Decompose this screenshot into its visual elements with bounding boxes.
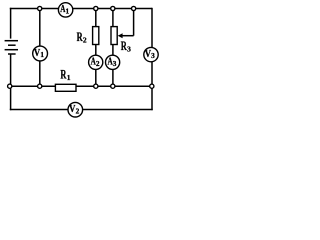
svg-text:2: 2 — [83, 36, 87, 45]
wire V1 branch vertical — [39, 9, 41, 87]
resistor R2 — [93, 27, 99, 45]
node top junction to R2 — [94, 6, 98, 10]
resistor R1 label — [60, 67, 70, 83]
wire R3 wiper arm — [118, 9, 134, 39]
wire R3 branch vertical — [112, 9, 114, 87]
wire middle horizontal row — [10, 85, 152, 87]
resistor R1 — [55, 84, 76, 91]
svg-text:1: 1 — [40, 50, 44, 59]
wire R2 branch vertical — [95, 9, 97, 87]
node top junction to V1 — [38, 6, 42, 10]
node row junction left — [8, 84, 12, 88]
voltmeter V2 — [68, 102, 83, 117]
voltmeter V1 — [33, 46, 48, 61]
svg-text:1: 1 — [66, 7, 70, 16]
node row junction A3 — [111, 84, 115, 88]
node top junction to R3 — [111, 6, 115, 10]
svg-text:2: 2 — [96, 59, 100, 68]
svg-text:1: 1 — [67, 73, 71, 82]
battery B1 — [5, 41, 18, 54]
node row junction right — [150, 84, 154, 88]
svg-text:2: 2 — [76, 106, 80, 115]
node top junction to wiper — [132, 6, 136, 10]
wire bottom horizontal — [10, 109, 153, 111]
wire left vertical lower — [10, 54, 12, 110]
wire top horizontal — [10, 8, 152, 10]
ammeter A1 — [58, 3, 72, 17]
ammeter A3 — [106, 55, 120, 69]
voltmeter V3 — [144, 47, 158, 61]
node row junction A2 — [94, 84, 98, 88]
wire right vertical — [151, 8, 153, 110]
ammeter A2 — [89, 55, 103, 69]
svg-text:3: 3 — [113, 59, 117, 68]
resistor R3 (rheostat) — [111, 27, 117, 45]
wire left vertical upper — [10, 8, 12, 39]
node row junction V1 — [38, 84, 42, 88]
resistor R3 label — [121, 38, 131, 54]
resistor R2 label — [77, 29, 87, 45]
svg-text:3: 3 — [151, 51, 155, 60]
svg-text:3: 3 — [127, 45, 131, 54]
